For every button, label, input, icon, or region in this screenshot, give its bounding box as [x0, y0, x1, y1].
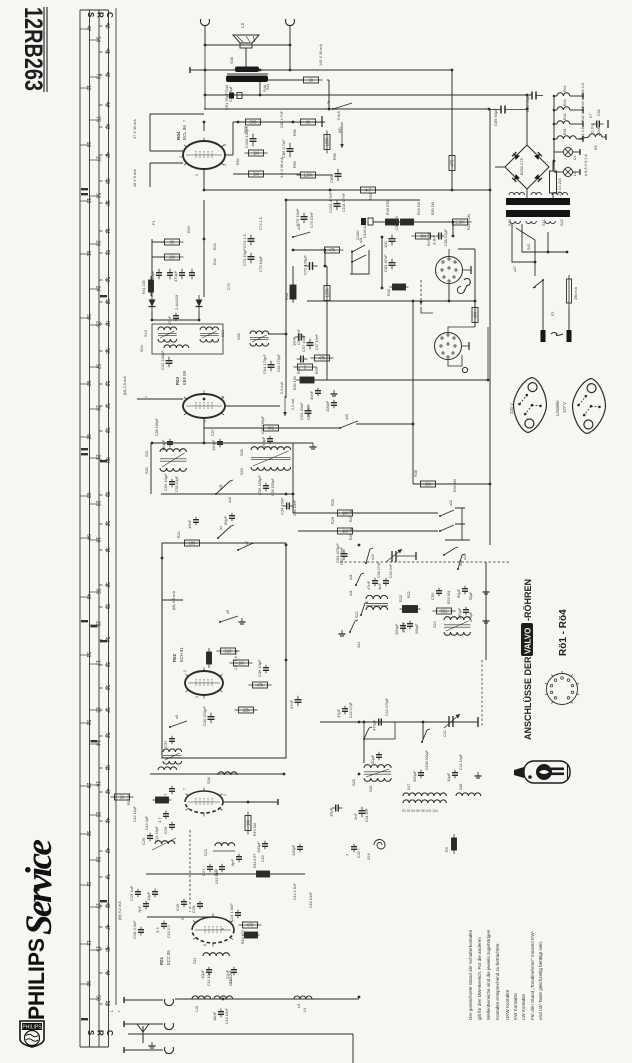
svg-text:C57: C57: [211, 429, 215, 436]
wire anode to C86 row: [225, 154, 233, 156]
svg-text:91: 91: [104, 228, 110, 234]
resistor R60: [242, 119, 265, 125]
resistor R39: [294, 364, 317, 370]
valve Rö3 EBF89: [183, 391, 225, 422]
resistor R29: [217, 648, 240, 654]
svg-text:S26: S26: [369, 786, 373, 792]
wire ift mid link: [268, 333, 286, 335]
junction dot 449 301: [448, 300, 451, 303]
svg-text:R10 470: R10 470: [241, 930, 245, 944]
svg-text:C65 10nF: C65 10nF: [297, 328, 301, 345]
label R91b: [445, 847, 449, 852]
ground trimmer C41: [477, 717, 479, 727]
svg-text:C70: C70: [227, 283, 231, 290]
wire rail y428: [204, 427, 340, 429]
svg-text:40nF: 40nF: [309, 390, 314, 400]
value label R54 5: [236, 158, 240, 165]
svg-text:2nF: 2nF: [353, 813, 358, 820]
svg-text:C64 170pF: C64 170pF: [262, 354, 267, 374]
svg-text:50: 50: [104, 277, 110, 283]
value label R57 3: [244, 126, 248, 133]
svg-text:C14 1.5nF: C14 1.5nF: [293, 882, 297, 900]
wire speaker bus: [205, 44, 290, 46]
label S10b: [229, 978, 233, 984]
svg-text:Rö1 - Rö4: Rö1 - Rö4: [558, 609, 569, 656]
svg-text:100pF: 100pF: [325, 400, 330, 412]
svg-text:100: 100: [189, 541, 197, 546]
capacitor C15: [155, 921, 167, 933]
wire fm dashed drop: [189, 830, 191, 912]
capacitor C16b: [175, 899, 187, 911]
value label C97 15µF 0: [229, 85, 233, 102]
resistor R10: [239, 922, 262, 928]
label C7: [589, 113, 593, 118]
svg-text:4.7: 4.7: [365, 188, 371, 193]
wire tube pin top: [203, 122, 205, 131]
junction selector c: [566, 251, 569, 254]
svg-text:5: 5: [181, 918, 185, 920]
svg-text:S18: S18: [459, 784, 463, 790]
value label C73 10µF 15: [259, 255, 263, 272]
label u11c: [349, 574, 353, 580]
svg-text:21: 21: [104, 250, 110, 256]
value label C12 22pF 73: [229, 969, 233, 986]
junction box corner: [161, 557, 164, 560]
svg-text:250 mA: 250 mA: [574, 286, 578, 300]
label u13: [297, 224, 301, 230]
svg-text:gilt für den MW-Bereich. Für d: gilt für den MW-Bereich. Für die anderen: [477, 937, 482, 1020]
wire det row4: [198, 311, 200, 320]
ratio detector box: [152, 324, 223, 354]
svg-text:C101 4.7nF: C101 4.7nF: [328, 192, 333, 213]
svg-text:R: R: [96, 12, 105, 18]
label S13: [144, 330, 148, 337]
value label R55 7: [333, 153, 337, 160]
wire bias row: [233, 173, 300, 175]
svg-text:47: 47: [104, 924, 110, 930]
capacitor C57: [211, 439, 223, 451]
svg-text:C28: C28: [191, 905, 196, 913]
ground mid a: [331, 390, 338, 396]
switch u11b: [215, 480, 233, 495]
junction y109 x489: [488, 108, 491, 111]
svg-text:56: 56: [94, 193, 100, 199]
value label 3 90: [179, 156, 183, 158]
label S15: [204, 849, 208, 856]
resistor R62: [300, 77, 323, 83]
junction dot 286 200: [285, 199, 288, 202]
svg-text:C85: C85: [329, 175, 334, 183]
svg-text:C18 10nF: C18 10nF: [309, 891, 313, 908]
svg-text:46: 46: [104, 23, 110, 29]
value label C67 10nF 26: [315, 333, 319, 350]
value label R59 6: [293, 161, 297, 168]
junction x452 y70: [451, 69, 454, 72]
capacitor C34: [280, 497, 294, 515]
svg-text:R25 1M: R25 1M: [349, 509, 353, 522]
svg-text:C41: C41: [443, 730, 447, 737]
ground trimmer: [415, 552, 417, 560]
wire x293 osc drop: [292, 443, 294, 513]
capacitor C72: [303, 255, 318, 275]
svg-text:7: 7: [183, 120, 187, 122]
junction y190 x330: [329, 189, 332, 192]
value label R43 11: [213, 243, 217, 250]
capacitor C58: [261, 436, 273, 448]
svg-text:300pF: 300pF: [401, 621, 406, 633]
capacitor C38b: [370, 752, 382, 764]
svg-text:ANSCHLÜSSE DER: ANSCHLÜSSE DER: [523, 656, 533, 740]
svg-text:47k: 47k: [319, 356, 327, 361]
trimmer capacitor C132: [386, 549, 416, 562]
junction dot 453 236: [452, 235, 455, 238]
svg-text:u13: u13: [463, 554, 467, 560]
label S11: [193, 958, 197, 964]
caption -ROEHREN: [523, 579, 533, 621]
svg-text:2: 2: [223, 164, 227, 166]
svg-text:60: 60: [85, 381, 91, 387]
svg-text:C64 170pF: C64 170pF: [277, 353, 281, 372]
switch u4: [217, 525, 234, 539]
svg-text:55: 55: [94, 588, 100, 594]
wire mains switch drop: [542, 280, 544, 300]
loudspeaker: [233, 23, 259, 48]
capacitor C29: [230, 854, 242, 866]
svg-text:50µF: 50µF: [456, 588, 461, 598]
svg-text:47µF: 47µF: [336, 708, 341, 718]
svg-text:10µF: 10µF: [446, 772, 451, 782]
output transformer S45 secondary bar: [229, 56, 259, 72]
svg-text:PHILIPS: PHILIPS: [24, 938, 49, 1020]
capacitor C101: [328, 192, 341, 213]
capacitor C30: [291, 844, 303, 856]
resistor R33b: [249, 682, 272, 688]
wire osc right vertical: [485, 562, 487, 660]
wire pickup drop: [452, 222, 454, 236]
svg-text:64: 64: [85, 534, 91, 540]
svg-text:C97 15µF: C97 15µF: [229, 85, 233, 102]
valve Rö1a ECC85: [185, 788, 223, 817]
label Loetstelle: [555, 400, 560, 416]
wire dashed box right: [481, 660, 483, 727]
value label S17 58: [407, 784, 411, 790]
capacitor C17: [137, 901, 149, 913]
resistor R14 wirewound: [153, 797, 172, 803]
value label C36 47nF 41: [377, 561, 381, 578]
svg-text:Rö1: Rö1: [563, 128, 567, 135]
wire x382 drop: [381, 237, 383, 288]
value label C106 300µF 50: [425, 749, 429, 770]
wire fm rail y874: [146, 873, 305, 875]
svg-text:470µF: 470µF: [372, 719, 377, 731]
svg-text:57: 57: [104, 403, 110, 409]
wire det spine2: [203, 200, 205, 297]
svg-text:38: 38: [104, 582, 110, 588]
resistor R47: [412, 233, 435, 239]
svg-text:u11: u11: [219, 484, 223, 490]
wire row y122: [233, 121, 325, 123]
wire bridge left: [495, 166, 505, 168]
svg-text:C12 22pF: C12 22pF: [229, 969, 233, 986]
svg-text:C59 150pF: C59 150pF: [257, 475, 262, 495]
svg-text:R43: R43: [213, 243, 217, 250]
mains transformer primary winding row: [509, 192, 568, 195]
antenna coil L11: [214, 996, 233, 999]
svg-text:C63 40nF: C63 40nF: [307, 403, 311, 420]
value label R50 1W 21: [431, 201, 435, 215]
value label R25 1M 38: [349, 509, 353, 522]
capacitor C31b: [353, 807, 366, 820]
svg-text:53: 53: [85, 720, 91, 726]
heater extension coil: [578, 134, 606, 150]
svg-text:ECH 81: ECH 81: [179, 647, 184, 662]
svg-text:73: 73: [94, 73, 100, 79]
svg-text:u13: u13: [297, 224, 301, 230]
svg-text:Service: Service: [19, 839, 60, 935]
svg-text:Rö4: Rö4: [563, 85, 567, 92]
junction ecc85a anode: [247, 801, 250, 804]
capacitor C28: [191, 901, 203, 913]
value label C58 190pF 34: [261, 415, 265, 434]
fuse F1 outline: [550, 161, 563, 199]
svg-text:S24: S24: [357, 642, 361, 648]
value label R48 2.2M 22: [467, 214, 471, 230]
current arrow 2.3mA: [280, 382, 287, 416]
resistor R48: [449, 219, 472, 225]
svg-text:C86 4.7nF: C86 4.7nF: [280, 110, 284, 128]
wire x325 riser: [324, 250, 326, 266]
label R26: [331, 517, 335, 524]
wire ebf cathode: [203, 418, 205, 428]
capacitor C22: [213, 864, 225, 876]
hook antenna 2: [165, 1023, 174, 1030]
wire rail y531: [298, 530, 438, 532]
svg-text:R16 1k: R16 1k: [127, 793, 131, 805]
wire mains lead a: [542, 300, 544, 330]
valve socket diagram: [545, 671, 579, 705]
svg-text:35: 35: [104, 604, 110, 610]
wire AVC bus vertical: [489, 109, 491, 545]
capacitor C59: [257, 475, 269, 495]
label Roe4 ECL86: [176, 131, 181, 140]
junction speaker left: [204, 44, 207, 47]
resistor R32: [235, 707, 258, 713]
label Roe3: [175, 376, 180, 385]
wire socket box top: [458, 248, 475, 250]
wire fm rail y917: [147, 916, 214, 918]
capacitor C33: [345, 844, 357, 856]
svg-text:C84 100: C84 100: [395, 216, 399, 230]
svg-text:27: 27: [94, 156, 100, 162]
svg-text:R6: R6: [594, 145, 598, 150]
svg-text:B250 C75: B250 C75: [520, 158, 524, 175]
svg-text:41: 41: [104, 49, 110, 55]
svg-text:4nF: 4nF: [377, 583, 382, 590]
arrow AVC stub: [419, 301, 433, 314]
resistor R61 wirewound: [243, 932, 260, 938]
value label C35 4nF 42: [389, 563, 393, 578]
value label u13 53: [371, 554, 375, 560]
wire grid stub 2: [150, 162, 183, 164]
capacitor C86: [281, 139, 294, 158]
svg-text:C16: C16: [175, 903, 180, 911]
label S35: [240, 449, 244, 456]
switch u7: [237, 543, 254, 551]
svg-text:ECL 86: ECL 86: [182, 125, 187, 140]
dial lamp L2: [564, 148, 573, 157]
svg-text:45: 45: [104, 946, 110, 952]
wire rail y109: [204, 108, 489, 110]
voltage selector plug 220V: [511, 376, 549, 434]
label R24: [177, 531, 181, 538]
svg-text:S13: S13: [144, 330, 148, 337]
svg-text:29: 29: [85, 783, 91, 789]
wire rail y380: [313, 379, 488, 381]
wire meas vertical: [149, 114, 151, 151]
svg-text:C34 10nF: C34 10nF: [293, 499, 297, 516]
label L9: [297, 1004, 301, 1008]
value label C74 1.5 14: [259, 217, 263, 230]
svg-text:19: 19: [94, 537, 100, 543]
resistor R50 wirewound: [399, 219, 416, 225]
svg-text:R25: R25: [331, 499, 335, 506]
label ECL86: [182, 125, 187, 140]
svg-text:58: 58: [104, 428, 110, 434]
label M 9.2mA: [118, 901, 122, 920]
junction dot 413 424: [412, 423, 415, 426]
heater chain windings Rö1-Rö4: [553, 85, 583, 142]
svg-text:Rö3: Rö3: [175, 376, 180, 385]
svg-text:C88 3.3µF: C88 3.3µF: [444, 228, 448, 246]
value label C65 10nF 25: [297, 328, 301, 345]
IF transformer S35: [250, 331, 269, 346]
capacitor C27: [256, 841, 268, 853]
capacitor C100 electrolytic: [355, 218, 373, 240]
value label C64 170pF 27: [277, 353, 281, 372]
junction dot 286 660: [285, 659, 288, 662]
svg-text:C59 150pF: C59 150pF: [271, 477, 275, 496]
ground osc right a: [483, 588, 490, 594]
resistor R30 ift: [296, 377, 318, 383]
svg-text:1: 1: [195, 174, 199, 176]
svg-text:13: 13: [104, 381, 110, 387]
coil S16 spiral: [367, 840, 385, 861]
value label R42 12: [213, 258, 217, 265]
coil S04 tertiary: [164, 345, 189, 348]
svg-text:S33: S33: [240, 468, 244, 475]
value label C11 10µF 72: [207, 970, 211, 986]
capacitor C65: [292, 334, 306, 347]
value label L1 86: [573, 156, 577, 160]
svg-text:50µF: 50µF: [469, 591, 473, 600]
label u4: [219, 526, 223, 530]
capacitor C64: [262, 354, 275, 374]
clip symbol socket1: [457, 279, 470, 294]
switch u12b: [443, 547, 458, 556]
svg-text:32: 32: [104, 521, 110, 527]
wire if spine left: [150, 443, 152, 494]
svg-text:2.2nF: 2.2nF: [590, 122, 595, 133]
wire R33 bottom: [451, 171, 453, 190]
svg-text:R: R: [96, 1030, 105, 1036]
svg-text:C34 10µF: C34 10µF: [459, 753, 463, 770]
tuner coil S17b: [403, 800, 446, 803]
wire pickup row2: [414, 221, 453, 223]
label S22: [355, 611, 359, 618]
antenna symbol: [137, 1024, 149, 1043]
switch u13c: [365, 548, 373, 564]
dial scale label R top: [96, 12, 105, 18]
label u7: [245, 541, 249, 545]
svg-text:S42: S42: [560, 219, 564, 226]
junction x382 y237: [381, 236, 384, 239]
antenna coil L10: [192, 996, 211, 999]
capacitor C106: [244, 125, 257, 148]
svg-text:R26: R26: [331, 517, 335, 524]
svg-text:C26: C26: [163, 826, 168, 834]
svg-text:47k: 47k: [257, 683, 265, 688]
AM unit box: [162, 543, 286, 758]
svg-text:Rö4: Rö4: [176, 131, 181, 140]
resistor R30b: [207, 648, 212, 668]
value label 9 99: [221, 928, 225, 930]
svg-text:R55: R55: [333, 153, 337, 160]
wire x293 drop2: [292, 299, 294, 301]
antenna lead 2: [124, 1023, 163, 1025]
wire selector to fuse: [548, 251, 567, 253]
svg-text:1M: 1M: [473, 312, 478, 318]
svg-text:R9: R9: [445, 847, 449, 852]
tuner coil S17: [403, 793, 446, 796]
svg-text:S17: S17: [407, 784, 411, 790]
capacitor C107 stub: [321, 116, 323, 127]
svg-text:12: 12: [85, 940, 91, 946]
svg-text:u10: u10: [345, 414, 349, 420]
wire socket box right: [474, 249, 476, 327]
svg-text:L10: L10: [195, 1006, 199, 1012]
svg-text:C13 18nF: C13 18nF: [225, 1007, 229, 1024]
svg-text:S35: S35: [240, 449, 244, 456]
label R41: [142, 280, 146, 294]
value label u11 55: [349, 590, 353, 596]
svg-text:4.7: 4.7: [157, 817, 162, 823]
capacitor C15c: [129, 885, 141, 901]
svg-text:S26: S26: [352, 779, 356, 786]
svg-text:R45: R45: [387, 289, 391, 296]
diode F3 AA119: [196, 295, 203, 311]
svg-text:C34 10nF: C34 10nF: [280, 497, 285, 515]
svg-text:2,3 mA: 2,3 mA: [291, 398, 295, 410]
capacitor C63: [299, 402, 312, 420]
junction dot 223 999: [222, 998, 225, 1001]
svg-text:51: 51: [85, 652, 91, 658]
svg-text:145 V 30 mA: 145 V 30 mA: [319, 44, 323, 66]
svg-text:u5: u5: [175, 715, 179, 719]
svg-text:-RÖHREN: -RÖHREN: [523, 579, 533, 621]
resistor R41: [149, 276, 154, 296]
junction selector a: [534, 261, 537, 264]
junction tube screen: [203, 121, 206, 124]
capacitor C34b: [446, 770, 458, 782]
value label R47 1M 23: [427, 233, 431, 246]
svg-text:C56 190pF: C56 190pF: [155, 417, 159, 436]
resistor R53b: [357, 187, 380, 193]
value label S44 1: [266, 84, 270, 90]
svg-text:u4: u4: [219, 526, 223, 530]
svg-text:Der gezeichnete Stand der Scha: Der gezeichnete Stand der Schalterkontak…: [468, 929, 473, 1020]
wire x413 drop: [412, 301, 414, 484]
svg-text:85: 85: [104, 492, 110, 498]
